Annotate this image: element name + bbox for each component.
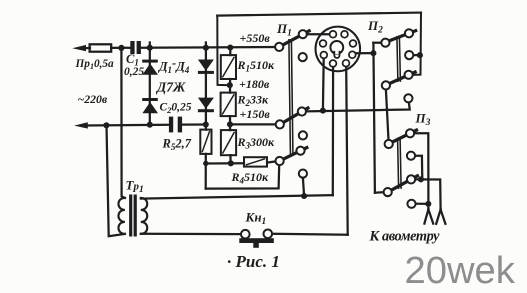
wire top box line [217, 13, 421, 16]
switch П3 deck1 [392, 130, 416, 142]
node П2 stub [417, 52, 423, 58]
node R3/R4 [228, 160, 234, 166]
contact П3 pos2 deck2 [407, 200, 415, 208]
arrow left bottom [74, 122, 88, 128]
contact П1 pos2 deck2 [299, 131, 307, 139]
wire П1 deck2 contact to П2 [306, 103, 410, 112]
node pin drop on П2 wire [320, 108, 326, 114]
wire box right drop [413, 13, 421, 75]
contact П3 pos2 deck1 [407, 152, 415, 160]
svg-text:R52,7: R52,7 [162, 137, 192, 153]
wire button to socket drop [272, 233, 348, 236]
svg-text:+150в: +150в [240, 107, 271, 121]
node secondary top wire [301, 193, 307, 199]
node C2 right [203, 121, 209, 127]
terminal fork 2 [436, 210, 440, 224]
resistor R5 [200, 130, 211, 154]
wire П3 deck2 contact to terminal 2 [415, 179, 440, 209]
resistor R4 [244, 157, 267, 166]
node R1 top [227, 44, 233, 50]
diode D1 [142, 60, 158, 63]
svg-text:Пр10,5а: Пр10,5а [75, 58, 115, 71]
switch П1 deck1 [283, 31, 309, 45]
svg-text:+550в: +550в [240, 31, 271, 45]
arrow left top [72, 45, 86, 51]
switch П1 deck3 [283, 148, 306, 160]
switch П2 deck2 [390, 72, 416, 84]
node socket right lead [370, 50, 376, 56]
wire П1 deck3 pos2 drop [303, 178, 304, 196]
wire П3 deck2 lower contact [416, 203, 429, 205]
switch П3 deck2 [391, 176, 417, 190]
svg-text:R1510к: R1510к [237, 58, 276, 74]
wire socket to П2 vertical [373, 43, 375, 193]
wire to П2 deck1 pivot [373, 42, 381, 44]
wire R5 bottom to loop [205, 154, 207, 189]
wire R2-R3 [229, 116, 231, 130]
wire socket pin drop right long [346, 67, 348, 235]
П2 shaft link [397, 37, 398, 81]
wire +550V rail [141, 46, 275, 49]
wire secondary bottom to button [141, 233, 241, 236]
wire R4 row left [206, 162, 244, 165]
svg-text:Кн1: Кн1 [245, 210, 267, 228]
node R5/R4 row [203, 161, 208, 166]
wire stub to П2 contact [413, 54, 420, 56]
resistor R2 [221, 93, 236, 117]
capacitor C2 [169, 117, 173, 133]
svg-text:R3300к: R3300к [237, 135, 276, 151]
svg-text:~220в: ~220в [78, 92, 108, 106]
diode D3 [198, 60, 214, 71]
svg-text:П2: П2 [367, 18, 383, 36]
node +150V [227, 121, 233, 127]
node fuse/C1/transformer [118, 45, 124, 51]
tube socket [316, 27, 361, 72]
node П3 deck2 lower [425, 201, 431, 207]
contact П1 pos2 deck3 [299, 170, 307, 178]
terminal fork 1 [424, 209, 428, 223]
wire 220V bottom lead [84, 124, 169, 127]
transformer core [129, 195, 132, 237]
button Кн1 [241, 230, 250, 239]
node diode col2 top [203, 45, 209, 51]
wire П3 deck1 lower contact drop [415, 156, 422, 180]
wire socket right lead [356, 52, 373, 54]
transformer Тр1 secondary winding [141, 198, 147, 234]
transformer Тр1 primary lead bottom [107, 125, 125, 236]
wire П2 deck2 pivot to П3 deck1 [386, 90, 389, 140]
socket key [330, 41, 343, 54]
contact П1 pos2 deck1 [299, 53, 307, 61]
transformer Тр1 primary winding [118, 198, 124, 234]
wire +150V to П1 [230, 123, 276, 125]
contact П2 pos2 deck1 [405, 51, 413, 59]
switch П1 deck2 [284, 108, 308, 122]
node C2 left [147, 122, 153, 128]
wire diode column 2 [205, 43, 207, 130]
wire R4 right lead [267, 161, 276, 162]
capacitor C1 [130, 41, 134, 54]
diode D4 [198, 98, 214, 109]
П1 shaft link [289, 40, 291, 153]
svg-text:П1: П1 [276, 21, 292, 39]
wire box left drop to +180 node [217, 16, 230, 86]
switch П2 deck1 [389, 31, 416, 41]
svg-text:R233к: R233к [237, 92, 270, 108]
svg-text:Тр1: Тр1 [126, 178, 144, 196]
wire 220V top lead [84, 47, 90, 49]
svg-text:К авометру: К авометру [369, 229, 441, 245]
svg-text:Д7Ж: Д7Ж [155, 80, 186, 95]
node diode col1 top [147, 45, 153, 51]
resistor R1 [229, 48, 231, 56]
svg-text:С20,25: С20,25 [160, 102, 192, 116]
node transformer primary [103, 122, 109, 128]
wire secondary top run [141, 195, 333, 198]
transformer Тр1 primary lead top [121, 48, 125, 198]
node П3 terminal row [418, 176, 424, 182]
svg-text:· Рис. 1: · Рис. 1 [227, 252, 280, 271]
wire П1 deck1 contact to socket [307, 33, 330, 35]
wire fuse to C1 [111, 47, 130, 49]
fuse Пр1 [90, 44, 112, 51]
svg-text:R4510к: R4510к [231, 170, 270, 186]
svg-text:П3: П3 [415, 111, 431, 129]
node +180V [227, 82, 233, 88]
П3 shaft link [398, 139, 399, 189]
wire socket pin drop left [322, 59, 325, 111]
contact П2 pos2 deck2 [404, 94, 412, 102]
diode D2 [142, 98, 158, 101]
wire П3 contacts to terminal 1 [414, 133, 428, 209]
wire R3 bottom [229, 155, 232, 163]
resistor R3 [221, 130, 236, 155]
wire socket pin drop mid [332, 67, 335, 195]
svg-text:0,25: 0,25 [124, 66, 144, 78]
wire loop bottom R4 [206, 165, 280, 189]
svg-text:Д1-Д4: Д1-Д4 [158, 56, 190, 75]
wire C2 to diode column 2 [182, 123, 206, 125]
svg-text:+180в: +180в [239, 77, 270, 91]
svg-text:20wek: 20wek [405, 249, 516, 292]
wire diode column 1 [149, 43, 151, 125]
wire to П3 deck2 pivot [375, 191, 384, 194]
wire R1-R2 [229, 79, 231, 93]
